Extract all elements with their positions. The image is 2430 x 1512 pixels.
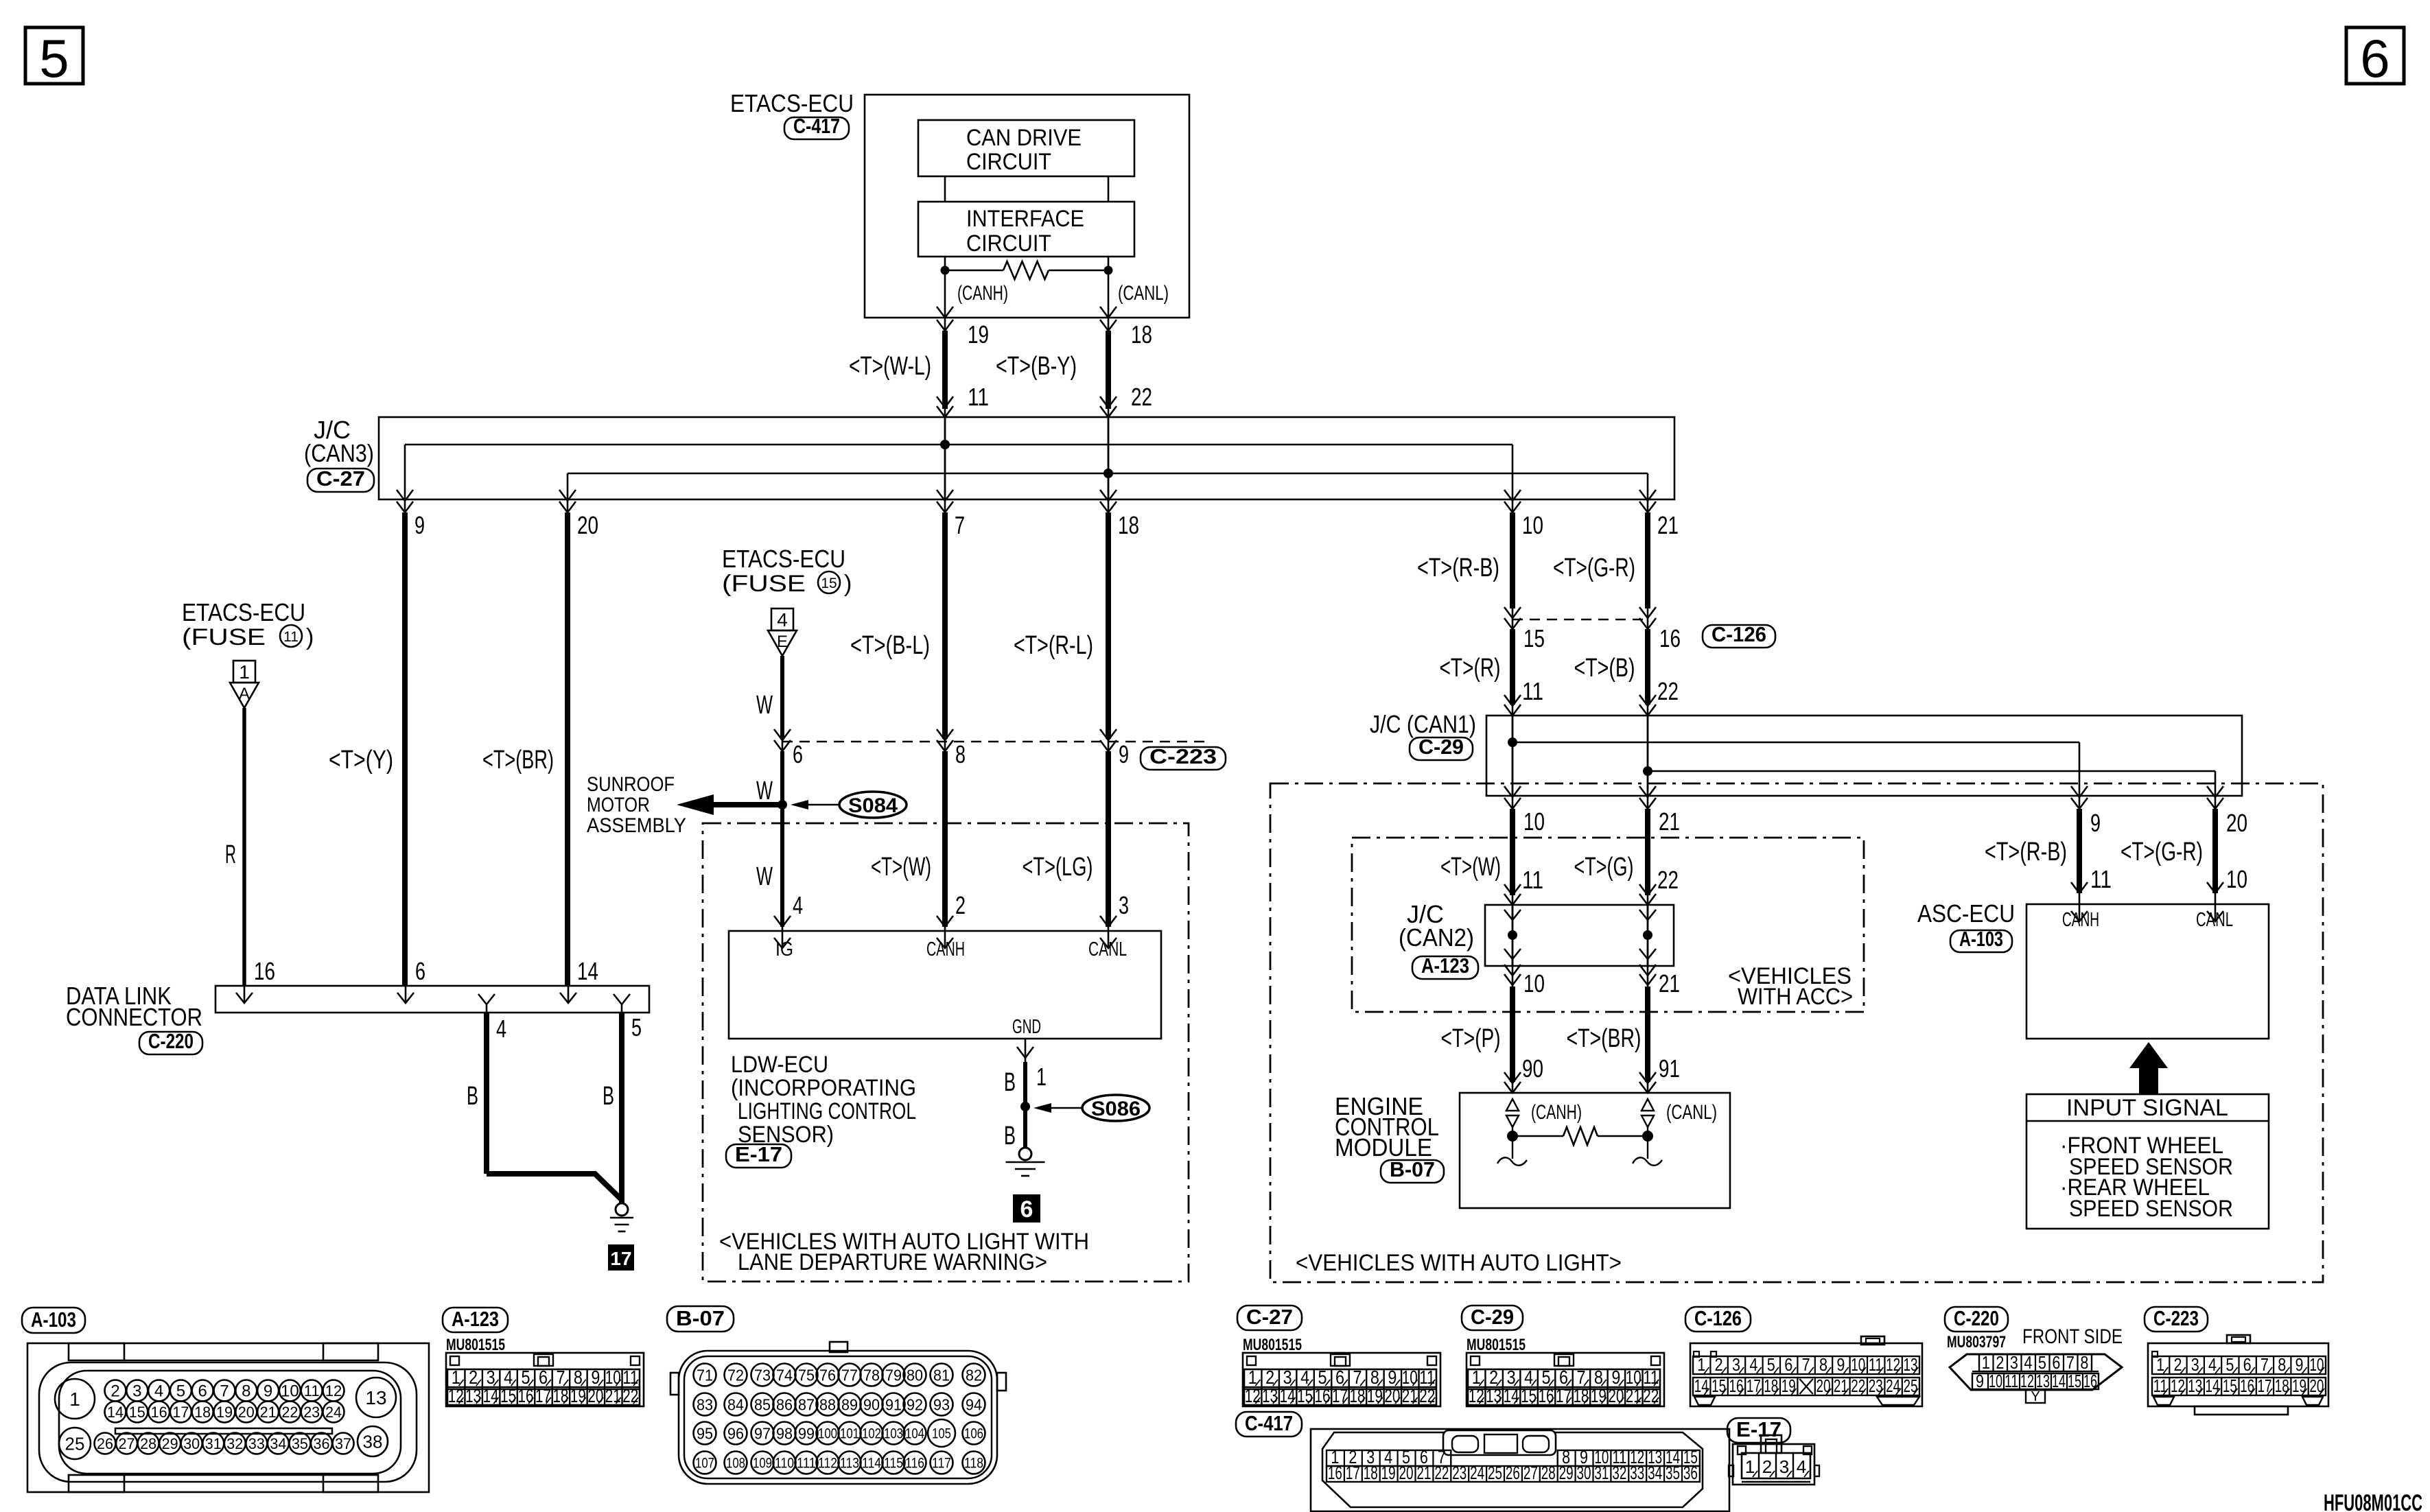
svg-text:CIRCUIT: CIRCUIT bbox=[966, 149, 1051, 175]
svg-text:73: 73 bbox=[754, 1366, 771, 1384]
svg-text:<T>(R-B): <T>(R-B) bbox=[1985, 838, 2067, 866]
svg-text:100: 100 bbox=[818, 1426, 837, 1442]
svg-text:117: 117 bbox=[932, 1456, 951, 1472]
svg-text:18: 18 bbox=[1118, 511, 1139, 539]
svg-text:15: 15 bbox=[821, 576, 837, 591]
svg-text:LIGHTING CONTROL: LIGHTING CONTROL bbox=[738, 1098, 916, 1124]
svg-text:30: 30 bbox=[183, 1435, 200, 1452]
svg-text:B-07: B-07 bbox=[1390, 1157, 1435, 1181]
svg-text:4: 4 bbox=[1749, 1354, 1757, 1375]
svg-text:79: 79 bbox=[885, 1366, 902, 1384]
svg-text:23: 23 bbox=[303, 1404, 320, 1421]
svg-text:35: 35 bbox=[1666, 1463, 1680, 1483]
svg-text:15: 15 bbox=[129, 1404, 145, 1421]
svg-text:12: 12 bbox=[2020, 1371, 2034, 1391]
svg-text:22: 22 bbox=[1419, 1385, 1435, 1406]
svg-text:8: 8 bbox=[2080, 1352, 2088, 1373]
svg-text:12: 12 bbox=[1245, 1385, 1261, 1406]
svg-text:E-17: E-17 bbox=[1736, 1417, 1781, 1441]
svg-text:A-103: A-103 bbox=[31, 1308, 76, 1332]
svg-text:6: 6 bbox=[2360, 28, 2390, 88]
svg-text:(FUSE: (FUSE bbox=[722, 571, 806, 597]
svg-text:71: 71 bbox=[697, 1366, 713, 1384]
svg-text:CANH: CANH bbox=[2062, 909, 2099, 931]
svg-text:15: 15 bbox=[2068, 1371, 2081, 1391]
svg-text:<T>(B-L): <T>(B-L) bbox=[850, 631, 930, 660]
svg-text:10: 10 bbox=[281, 1382, 299, 1401]
svg-text:104: 104 bbox=[905, 1426, 924, 1442]
svg-text:110: 110 bbox=[775, 1456, 794, 1472]
svg-text:23: 23 bbox=[1452, 1463, 1467, 1483]
svg-text:1: 1 bbox=[1697, 1354, 1705, 1375]
svg-text:9: 9 bbox=[264, 1382, 272, 1401]
svg-text:4: 4 bbox=[496, 1015, 506, 1043]
svg-text:(CANH): (CANH) bbox=[1531, 1101, 1582, 1124]
svg-text:INTERFACE: INTERFACE bbox=[966, 206, 1084, 232]
svg-text:22: 22 bbox=[281, 1404, 298, 1421]
svg-text:INPUT SIGNAL: INPUT SIGNAL bbox=[2066, 1095, 2228, 1121]
svg-text:FRONT SIDE: FRONT SIDE bbox=[2022, 1325, 2123, 1348]
svg-text:15: 15 bbox=[1523, 624, 1545, 652]
svg-text:16: 16 bbox=[1659, 624, 1681, 652]
svg-text:1: 1 bbox=[2156, 1354, 2164, 1375]
svg-text:21: 21 bbox=[1834, 1375, 1848, 1396]
svg-text:2: 2 bbox=[1996, 1352, 2004, 1373]
svg-text:16: 16 bbox=[151, 1404, 167, 1421]
svg-text:76: 76 bbox=[819, 1366, 836, 1384]
svg-text:14: 14 bbox=[1280, 1385, 1296, 1406]
svg-text:36: 36 bbox=[1683, 1463, 1698, 1483]
svg-text:CANH: CANH bbox=[926, 938, 965, 960]
svg-text:34: 34 bbox=[270, 1435, 286, 1452]
svg-text:16: 16 bbox=[1729, 1375, 1743, 1396]
svg-text:1: 1 bbox=[239, 661, 250, 683]
svg-text:14: 14 bbox=[577, 957, 598, 985]
svg-text:32: 32 bbox=[226, 1435, 243, 1452]
svg-text:9: 9 bbox=[2295, 1354, 2304, 1375]
svg-text:36: 36 bbox=[314, 1435, 330, 1452]
svg-text:B-07: B-07 bbox=[676, 1306, 725, 1330]
svg-text:20: 20 bbox=[238, 1404, 255, 1421]
svg-text:102: 102 bbox=[862, 1426, 881, 1442]
svg-text:20: 20 bbox=[1816, 1375, 1830, 1396]
svg-text:87: 87 bbox=[798, 1395, 815, 1413]
svg-text:C-417: C-417 bbox=[1245, 1411, 1293, 1435]
svg-text:(INCORPORATING: (INCORPORATING bbox=[731, 1075, 916, 1101]
svg-text:16: 16 bbox=[2240, 1375, 2254, 1396]
svg-text:12: 12 bbox=[1469, 1385, 1484, 1406]
svg-text:C-223: C-223 bbox=[1149, 744, 1217, 768]
svg-text:106: 106 bbox=[964, 1426, 983, 1442]
svg-text:21: 21 bbox=[605, 1385, 621, 1406]
svg-text:<T>(R-B): <T>(R-B) bbox=[1417, 554, 1499, 582]
svg-text:3: 3 bbox=[1732, 1354, 1740, 1375]
svg-text:3: 3 bbox=[1779, 1456, 1789, 1477]
svg-text:14: 14 bbox=[1694, 1375, 1709, 1396]
svg-text:MOTOR: MOTOR bbox=[587, 794, 650, 816]
svg-text:25: 25 bbox=[1903, 1375, 1917, 1396]
svg-text:CANL: CANL bbox=[1088, 938, 1127, 960]
svg-text:20: 20 bbox=[2226, 809, 2247, 837]
svg-text:13: 13 bbox=[365, 1387, 386, 1408]
svg-text:101: 101 bbox=[840, 1426, 859, 1442]
svg-text:19: 19 bbox=[1591, 1385, 1607, 1406]
svg-text:107: 107 bbox=[695, 1456, 714, 1472]
svg-text:1: 1 bbox=[1036, 1063, 1047, 1091]
svg-text:29: 29 bbox=[1559, 1463, 1574, 1483]
svg-text:11: 11 bbox=[2153, 1375, 2168, 1396]
svg-text:21: 21 bbox=[1657, 511, 1679, 539]
svg-text:C-27: C-27 bbox=[316, 466, 365, 491]
svg-text:21: 21 bbox=[1659, 807, 1680, 836]
svg-text:21: 21 bbox=[1416, 1463, 1431, 1483]
svg-text:18: 18 bbox=[1349, 1385, 1365, 1406]
svg-text:<VEHICLES WITH AUTO LIGHT>: <VEHICLES WITH AUTO LIGHT> bbox=[1296, 1250, 1622, 1276]
svg-text:12: 12 bbox=[325, 1382, 342, 1399]
svg-text:B: B bbox=[467, 1082, 478, 1111]
svg-text:2: 2 bbox=[110, 1382, 119, 1401]
svg-text:14: 14 bbox=[483, 1385, 499, 1406]
svg-text:22: 22 bbox=[1131, 383, 1152, 411]
svg-text:): ) bbox=[306, 624, 314, 650]
svg-text:92: 92 bbox=[907, 1395, 923, 1413]
svg-text:18: 18 bbox=[1364, 1463, 1378, 1483]
svg-text:17: 17 bbox=[1332, 1385, 1348, 1406]
svg-text:C-29: C-29 bbox=[1471, 1305, 1514, 1329]
svg-text:CAN DRIVE: CAN DRIVE bbox=[966, 125, 1082, 151]
svg-text:16: 16 bbox=[1315, 1385, 1331, 1406]
svg-text:99: 99 bbox=[798, 1424, 815, 1442]
svg-text:37: 37 bbox=[335, 1435, 351, 1452]
svg-text:5: 5 bbox=[176, 1382, 185, 1401]
svg-text:105: 105 bbox=[932, 1426, 951, 1442]
svg-text:8: 8 bbox=[955, 740, 966, 768]
svg-text:11: 11 bbox=[1522, 866, 1543, 894]
svg-text:7: 7 bbox=[1802, 1354, 1810, 1375]
svg-text:10: 10 bbox=[1851, 1354, 1865, 1375]
svg-text:7: 7 bbox=[2066, 1352, 2075, 1373]
svg-text:E-17: E-17 bbox=[735, 1142, 782, 1166]
svg-text:A: A bbox=[239, 685, 250, 703]
svg-text:90: 90 bbox=[1522, 1054, 1543, 1083]
svg-text:80: 80 bbox=[907, 1366, 923, 1384]
svg-text:72: 72 bbox=[727, 1366, 744, 1384]
svg-text:22: 22 bbox=[1657, 866, 1679, 894]
svg-text:W: W bbox=[756, 691, 773, 720]
svg-text:24: 24 bbox=[325, 1404, 342, 1421]
svg-text:19: 19 bbox=[968, 320, 989, 349]
svg-text:18: 18 bbox=[2275, 1375, 2289, 1396]
svg-text:HFU08M01CC: HFU08M01CC bbox=[2324, 1490, 2422, 1512]
svg-text:9: 9 bbox=[2090, 809, 2101, 837]
svg-text:118: 118 bbox=[964, 1456, 983, 1472]
svg-text:111: 111 bbox=[797, 1456, 816, 1472]
svg-text:12: 12 bbox=[448, 1385, 464, 1406]
svg-text:<T>(W): <T>(W) bbox=[1440, 853, 1501, 882]
svg-text:10: 10 bbox=[2309, 1354, 2324, 1375]
svg-text:83: 83 bbox=[697, 1395, 713, 1413]
svg-text:7: 7 bbox=[220, 1382, 229, 1401]
svg-text:3: 3 bbox=[2010, 1352, 2018, 1373]
svg-text:11: 11 bbox=[2090, 865, 2112, 893]
svg-text:A-103: A-103 bbox=[1959, 927, 2003, 951]
svg-text:3: 3 bbox=[1119, 891, 1129, 919]
svg-text:38: 38 bbox=[363, 1431, 383, 1452]
svg-text:10: 10 bbox=[1522, 511, 1543, 539]
svg-text:93: 93 bbox=[933, 1395, 950, 1413]
svg-text:MU803797: MU803797 bbox=[1947, 1333, 2006, 1351]
svg-text:11: 11 bbox=[304, 1382, 320, 1399]
svg-text:3: 3 bbox=[2191, 1354, 2199, 1375]
svg-text:95: 95 bbox=[697, 1424, 713, 1442]
svg-text:33: 33 bbox=[248, 1435, 265, 1452]
svg-text:82: 82 bbox=[966, 1366, 982, 1384]
svg-text:16: 16 bbox=[518, 1385, 534, 1406]
svg-text:(CANH): (CANH) bbox=[957, 282, 1008, 305]
svg-text:B: B bbox=[603, 1082, 614, 1111]
svg-text:112: 112 bbox=[818, 1456, 837, 1472]
svg-text:IG: IG bbox=[775, 938, 793, 960]
svg-text:19: 19 bbox=[2292, 1375, 2306, 1396]
svg-text:6: 6 bbox=[198, 1382, 207, 1401]
svg-text:8: 8 bbox=[242, 1382, 250, 1401]
svg-text:91: 91 bbox=[885, 1395, 902, 1413]
svg-text:7: 7 bbox=[955, 511, 965, 539]
svg-text:23: 23 bbox=[1869, 1375, 1883, 1396]
svg-text:22: 22 bbox=[1851, 1375, 1865, 1396]
svg-text:4: 4 bbox=[2024, 1352, 2032, 1373]
svg-text:<T>(LG): <T>(LG) bbox=[1023, 853, 1093, 882]
svg-text:<T>(R): <T>(R) bbox=[1440, 654, 1501, 683]
svg-text:13: 13 bbox=[1262, 1385, 1278, 1406]
svg-text:WITH ACC>: WITH ACC> bbox=[1738, 984, 1853, 1010]
svg-text:<T>(B-Y): <T>(B-Y) bbox=[996, 352, 1077, 381]
svg-text:16: 16 bbox=[1328, 1463, 1342, 1483]
svg-text:1: 1 bbox=[1982, 1352, 1990, 1373]
svg-text:CONNECTOR: CONNECTOR bbox=[66, 1003, 202, 1031]
svg-text:4: 4 bbox=[2208, 1354, 2217, 1375]
svg-text:8: 8 bbox=[2278, 1354, 2286, 1375]
svg-text:25: 25 bbox=[1488, 1463, 1502, 1483]
svg-text:5: 5 bbox=[2225, 1354, 2234, 1375]
svg-text:4: 4 bbox=[1797, 1456, 1806, 1477]
svg-text:14: 14 bbox=[2052, 1371, 2066, 1391]
svg-text:97: 97 bbox=[754, 1424, 771, 1442]
svg-text:15: 15 bbox=[1711, 1375, 1726, 1396]
svg-text:9: 9 bbox=[1976, 1371, 1984, 1391]
svg-text:90: 90 bbox=[863, 1395, 880, 1413]
svg-text:C-220: C-220 bbox=[148, 1029, 194, 1053]
svg-text:81: 81 bbox=[933, 1366, 950, 1384]
svg-text:E: E bbox=[777, 633, 788, 651]
svg-text:16: 16 bbox=[1539, 1385, 1554, 1406]
svg-text:ETACS-ECU: ETACS-ECU bbox=[722, 545, 845, 573]
svg-text:21: 21 bbox=[1659, 969, 1680, 997]
svg-text:<T>(G-R): <T>(G-R) bbox=[1553, 554, 1635, 582]
svg-text:27: 27 bbox=[119, 1435, 135, 1452]
svg-text:114: 114 bbox=[862, 1456, 881, 1472]
svg-text:CANL: CANL bbox=[2196, 909, 2233, 931]
svg-text:22: 22 bbox=[1643, 1385, 1659, 1406]
svg-text:6: 6 bbox=[1020, 1196, 1033, 1222]
svg-text:15: 15 bbox=[500, 1385, 516, 1406]
svg-text:CIRCUIT: CIRCUIT bbox=[966, 231, 1051, 257]
svg-text:<T>(P): <T>(P) bbox=[1441, 1024, 1501, 1053]
svg-text:29: 29 bbox=[162, 1435, 178, 1452]
svg-text:6: 6 bbox=[2243, 1354, 2252, 1375]
svg-text:6: 6 bbox=[415, 957, 425, 985]
svg-text:32: 32 bbox=[1612, 1463, 1626, 1483]
svg-text:(CAN3): (CAN3) bbox=[304, 439, 374, 467]
svg-text:9: 9 bbox=[1836, 1354, 1845, 1375]
svg-text:2: 2 bbox=[955, 891, 966, 919]
svg-text:9: 9 bbox=[414, 511, 425, 539]
svg-text:B: B bbox=[1004, 1122, 1016, 1150]
svg-text:ETACS-ECU: ETACS-ECU bbox=[730, 89, 854, 117]
svg-text:13: 13 bbox=[2036, 1371, 2050, 1391]
svg-text:S086: S086 bbox=[1091, 1098, 1141, 1120]
svg-text:17: 17 bbox=[172, 1404, 189, 1421]
svg-text:ASSEMBLY: ASSEMBLY bbox=[587, 814, 686, 837]
svg-text:C-126: C-126 bbox=[1694, 1306, 1742, 1330]
svg-text:31: 31 bbox=[1594, 1463, 1609, 1483]
svg-text:98: 98 bbox=[776, 1424, 793, 1442]
svg-text:89: 89 bbox=[841, 1395, 858, 1413]
svg-text:11: 11 bbox=[2005, 1371, 2018, 1391]
svg-text:18: 18 bbox=[1764, 1375, 1778, 1396]
svg-text:<T>(B): <T>(B) bbox=[1574, 654, 1635, 683]
svg-text:18: 18 bbox=[1573, 1385, 1589, 1406]
svg-text:8: 8 bbox=[1819, 1354, 1827, 1375]
svg-text:20: 20 bbox=[1608, 1385, 1624, 1406]
svg-text:): ) bbox=[844, 571, 852, 597]
svg-text:B: B bbox=[1004, 1068, 1016, 1097]
svg-text:10: 10 bbox=[1523, 807, 1545, 836]
svg-text:14: 14 bbox=[1504, 1385, 1519, 1406]
svg-text:GND: GND bbox=[1012, 1016, 1041, 1038]
svg-text:7: 7 bbox=[2260, 1354, 2269, 1375]
svg-text:5: 5 bbox=[1767, 1354, 1775, 1375]
svg-text:W: W bbox=[756, 777, 773, 805]
svg-text:15: 15 bbox=[1521, 1385, 1537, 1406]
svg-text:<T>(R-L): <T>(R-L) bbox=[1014, 631, 1093, 660]
svg-text:14: 14 bbox=[2206, 1375, 2220, 1396]
svg-text:6: 6 bbox=[1784, 1354, 1792, 1375]
svg-text:2: 2 bbox=[1762, 1456, 1772, 1477]
svg-text:19: 19 bbox=[1367, 1385, 1383, 1406]
svg-text:5: 5 bbox=[2038, 1352, 2046, 1373]
svg-text:13: 13 bbox=[2188, 1375, 2202, 1396]
svg-text:88: 88 bbox=[819, 1395, 836, 1413]
svg-text:20: 20 bbox=[2309, 1375, 2324, 1396]
svg-text:19: 19 bbox=[1381, 1463, 1396, 1483]
svg-text:C-126: C-126 bbox=[1711, 622, 1766, 646]
svg-text:4: 4 bbox=[154, 1382, 163, 1401]
svg-text:<T>(Y): <T>(Y) bbox=[329, 746, 393, 775]
svg-text:96: 96 bbox=[727, 1424, 744, 1442]
svg-text:LANE DEPARTURE WARNING>: LANE DEPARTURE WARNING> bbox=[738, 1249, 1047, 1275]
svg-text:5: 5 bbox=[39, 28, 69, 88]
svg-text:19: 19 bbox=[216, 1404, 233, 1421]
svg-text:15: 15 bbox=[1297, 1385, 1313, 1406]
svg-text:<T>(BR): <T>(BR) bbox=[1567, 1024, 1642, 1053]
svg-text:26: 26 bbox=[1506, 1463, 1520, 1483]
svg-text:19: 19 bbox=[570, 1385, 586, 1406]
svg-text:18: 18 bbox=[1131, 320, 1152, 349]
svg-text:34: 34 bbox=[1648, 1463, 1662, 1483]
svg-text:A-123: A-123 bbox=[452, 1307, 499, 1331]
svg-text:75: 75 bbox=[798, 1366, 815, 1384]
svg-text:13: 13 bbox=[1903, 1354, 1917, 1375]
svg-text:17: 17 bbox=[1346, 1463, 1360, 1483]
svg-text:<T>(G-R): <T>(G-R) bbox=[2121, 838, 2203, 866]
svg-text:22: 22 bbox=[1657, 677, 1679, 705]
svg-text:<T>(BR): <T>(BR) bbox=[482, 746, 554, 775]
svg-text:LDW-ECU: LDW-ECU bbox=[731, 1052, 828, 1078]
svg-text:11: 11 bbox=[1522, 677, 1543, 705]
svg-text:28: 28 bbox=[1541, 1463, 1556, 1483]
svg-text:10: 10 bbox=[1989, 1371, 2002, 1391]
svg-text:11: 11 bbox=[968, 383, 989, 411]
svg-text:4: 4 bbox=[793, 891, 803, 919]
svg-text:(CANL): (CANL) bbox=[1666, 1101, 1717, 1124]
svg-text:J/C (CAN1): J/C (CAN1) bbox=[1370, 710, 1476, 738]
svg-text:C-223: C-223 bbox=[2153, 1306, 2199, 1330]
svg-text:ETACS-ECU: ETACS-ECU bbox=[182, 598, 305, 626]
svg-text:84: 84 bbox=[727, 1395, 744, 1413]
svg-text:25: 25 bbox=[65, 1433, 85, 1454]
svg-text:14: 14 bbox=[107, 1404, 124, 1421]
svg-text:21: 21 bbox=[1626, 1385, 1642, 1406]
svg-text:17: 17 bbox=[610, 1248, 631, 1269]
svg-text:17: 17 bbox=[1556, 1385, 1572, 1406]
svg-text:21: 21 bbox=[1402, 1385, 1418, 1406]
svg-text:1: 1 bbox=[69, 1389, 80, 1410]
svg-text:85: 85 bbox=[754, 1395, 771, 1413]
svg-text:86: 86 bbox=[776, 1395, 793, 1413]
svg-text:26: 26 bbox=[97, 1435, 113, 1452]
svg-text:2: 2 bbox=[1715, 1354, 1723, 1375]
svg-text:35: 35 bbox=[292, 1435, 308, 1452]
svg-text:94: 94 bbox=[966, 1395, 982, 1413]
svg-text:C-417: C-417 bbox=[793, 114, 840, 138]
svg-text:31: 31 bbox=[205, 1435, 222, 1452]
svg-text:24: 24 bbox=[1886, 1375, 1900, 1396]
svg-text:C-29: C-29 bbox=[1418, 735, 1464, 759]
svg-text:22: 22 bbox=[622, 1385, 638, 1406]
svg-text:S084: S084 bbox=[848, 794, 898, 817]
svg-text:(FUSE: (FUSE bbox=[182, 624, 266, 650]
svg-text:R: R bbox=[225, 840, 236, 869]
svg-text:<T>(G): <T>(G) bbox=[1574, 853, 1634, 882]
svg-text:16: 16 bbox=[254, 957, 275, 985]
svg-text:109: 109 bbox=[753, 1456, 772, 1472]
svg-text:18: 18 bbox=[552, 1385, 568, 1406]
svg-text:MU801515: MU801515 bbox=[446, 1336, 505, 1354]
svg-text:77: 77 bbox=[841, 1366, 858, 1384]
svg-text:27: 27 bbox=[1523, 1463, 1538, 1483]
svg-text:Y: Y bbox=[2031, 1389, 2040, 1404]
svg-text:18: 18 bbox=[194, 1404, 211, 1421]
svg-text:ASC-ECU: ASC-ECU bbox=[1917, 899, 2015, 928]
svg-text:11: 11 bbox=[1869, 1354, 1883, 1375]
svg-text:21: 21 bbox=[260, 1404, 277, 1421]
svg-text:6: 6 bbox=[793, 740, 803, 768]
svg-text:13: 13 bbox=[1486, 1385, 1502, 1406]
svg-text:30: 30 bbox=[1577, 1463, 1591, 1483]
svg-text:115: 115 bbox=[884, 1456, 903, 1472]
svg-text:<T>(W-L): <T>(W-L) bbox=[849, 352, 931, 381]
